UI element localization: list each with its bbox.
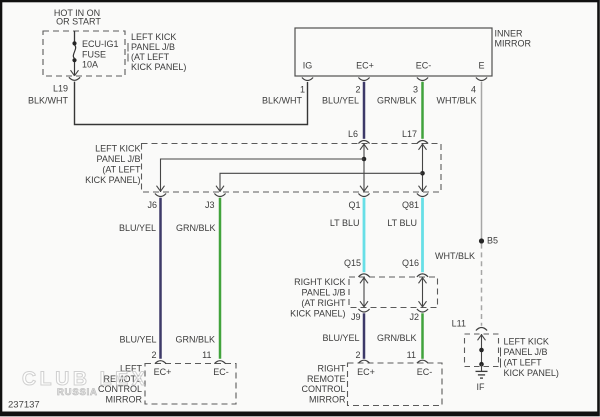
svg-text:2: 2	[355, 85, 360, 95]
svg-text:11: 11	[407, 350, 416, 360]
connector cup pin 4	[476, 78, 487, 81]
connector L19 cup	[69, 77, 80, 80]
svg-text:BLK/WHT: BLK/WHT	[262, 96, 303, 106]
svg-text:11: 11	[202, 350, 211, 360]
svg-text:(AT LEFT: (AT LEFT	[504, 358, 543, 368]
connector Q1	[348, 194, 369, 211]
svg-text:(AT LEFT: (AT LEFT	[131, 52, 170, 62]
svg-text:L19: L19	[53, 84, 68, 94]
connector J2	[409, 309, 428, 322]
svg-text:BLK/WHT: BLK/WHT	[28, 96, 69, 106]
svg-text:Q81: Q81	[402, 200, 419, 210]
svg-text:KICK PANEL): KICK PANEL)	[290, 309, 345, 319]
wire BLK/WHT from fuse to inner mirror pin 1	[75, 82, 308, 125]
wire WHT/BLK pin 4 to B5	[481, 82, 483, 241]
label RIGHT REMOTE CONTROL MIRROR	[301, 364, 346, 405]
svg-text:OR START: OR START	[56, 16, 101, 26]
wire BLU/YEL pin 2 to L6	[363, 82, 366, 139]
svg-text:IG: IG	[303, 61, 313, 71]
label INNER MIRROR	[495, 29, 532, 49]
svg-text:CONTROL: CONTROL	[301, 384, 345, 394]
wire GRN/BLK pin 3 to L17	[421, 82, 424, 139]
svg-text:IF: IF	[477, 382, 486, 392]
component box right remote control mirror	[348, 363, 443, 406]
J/B internal wire L11 to IF	[478, 334, 486, 364]
svg-text:PANEL J/B: PANEL J/B	[131, 42, 175, 52]
component box inner mirror	[295, 28, 492, 76]
svg-text:BLU/YEL: BLU/YEL	[322, 333, 359, 343]
svg-text:LEFT KICK: LEFT KICK	[95, 144, 140, 154]
fuse ECU-IG1 10A symbol	[72, 41, 76, 75]
svg-text:Q16: Q16	[402, 258, 419, 268]
svg-text:4: 4	[471, 85, 476, 95]
svg-text:GRN/BLK: GRN/BLK	[377, 96, 417, 106]
svg-text:EC-: EC-	[417, 367, 433, 377]
svg-text:L6: L6	[348, 129, 358, 139]
connector cup right mirror EC-	[417, 360, 428, 363]
svg-text:2: 2	[151, 350, 156, 360]
J/B internal wire to J6	[157, 159, 365, 192]
svg-text:BLU/YEL: BLU/YEL	[119, 335, 156, 345]
svg-text:FUSE: FUSE	[82, 49, 106, 59]
svg-text:INNER: INNER	[495, 29, 524, 39]
svg-text:PANEL J/B: PANEL J/B	[96, 154, 140, 164]
label LEFT KICK PANEL J/B at fuse box	[131, 32, 186, 72]
svg-text:EC+: EC+	[154, 367, 172, 377]
svg-text:KICK PANEL): KICK PANEL)	[131, 62, 186, 72]
connector J6	[147, 194, 166, 211]
dashed wire B5 to L11	[481, 244, 483, 326]
wire into fuse	[74, 31, 76, 43]
svg-text:Q15: Q15	[344, 258, 361, 268]
svg-text:Q1: Q1	[348, 200, 360, 210]
label LEFT KICK PANEL J/B (AT LEFT KICK PANEL)	[85, 144, 141, 186]
svg-text:J2: J2	[409, 312, 419, 322]
svg-text:3: 3	[413, 85, 418, 95]
wire GRN/BLK J2 to right mirror	[421, 313, 424, 359]
J/B internal wire to J3	[216, 173, 423, 192]
svg-text:KICK PANEL): KICK PANEL)	[85, 175, 140, 185]
svg-text:10A: 10A	[82, 60, 98, 70]
svg-text:MIRROR: MIRROR	[309, 395, 346, 405]
svg-text:WHT/BLK: WHT/BLK	[436, 96, 476, 106]
svg-text:RIGHT: RIGHT	[318, 364, 347, 374]
svg-text:(AT RIGHT: (AT RIGHT	[301, 298, 346, 308]
connector Q16 cup	[417, 274, 428, 277]
label RIGHT KICK PANEL J/B (AT RIGHT KICK PANEL)	[290, 277, 346, 319]
component box left remote control mirror	[145, 364, 236, 405]
svg-text:(AT LEFT: (AT LEFT	[102, 165, 141, 175]
svg-text:EC+: EC+	[356, 61, 374, 71]
svg-text:BLU/YEL: BLU/YEL	[322, 96, 359, 106]
wire LT BLU Q81 to Q16	[421, 198, 424, 272]
svg-text:GRN/BLK: GRN/BLK	[176, 223, 216, 233]
connector L6	[348, 129, 370, 144]
svg-text:RIGHT KICK: RIGHT KICK	[294, 277, 345, 287]
svg-text:RUSSIA: RUSSIA	[57, 387, 98, 398]
svg-text:KICK PANEL): KICK PANEL)	[504, 368, 559, 378]
J/B internal wire Q16 to J2	[419, 277, 427, 308]
connector J9	[351, 309, 370, 322]
junction block dashed box right kick panel J/B	[349, 277, 438, 308]
svg-text:237137: 237137	[8, 399, 40, 410]
junction block dashed box left kick panel J/B lower	[465, 334, 499, 367]
connector cup left mirror EC-	[214, 361, 225, 364]
svg-text:EC-: EC-	[213, 367, 229, 377]
wire LT BLU Q1 to Q15	[363, 198, 366, 272]
svg-text:L11: L11	[452, 319, 466, 329]
svg-text:GRN/BLK: GRN/BLK	[175, 335, 215, 345]
svg-text:LT BLU: LT BLU	[330, 218, 360, 228]
svg-text:LT BLU: LT BLU	[387, 218, 417, 228]
junction block dashed box (fuse holder)	[43, 31, 125, 76]
arrow at fuse box exit	[71, 70, 79, 76]
svg-text:BLU/YEL: BLU/YEL	[119, 223, 156, 233]
svg-text:MIRROR: MIRROR	[106, 395, 143, 405]
svg-text:WHT/BLK: WHT/BLK	[435, 251, 475, 261]
connector L17	[402, 129, 428, 144]
connector cup right mirror EC+	[358, 360, 369, 363]
watermark CLUB LEX RUSSIA	[22, 368, 148, 398]
junction node on L6 line	[362, 157, 367, 162]
svg-text:PANEL J/B: PANEL J/B	[504, 347, 548, 357]
junction node in lower J/B	[479, 348, 484, 353]
ground IF	[476, 364, 488, 378]
connector cup pin 1	[302, 78, 313, 81]
label LEFT KICK PANEL J/B (AT LEFT KICK PANEL) lower	[504, 337, 559, 379]
J/B internal wire L6 to Q1	[360, 144, 368, 193]
brace for fuse box label	[127, 43, 129, 62]
connector J3	[205, 194, 226, 211]
J/B internal wire L17 to Q81	[419, 144, 427, 193]
fuse label ECU-IG1 FUSE 10A	[82, 39, 119, 70]
connector cup left mirror EC+	[155, 361, 166, 364]
svg-text:L17: L17	[402, 129, 417, 139]
svg-text:B5: B5	[487, 236, 498, 246]
connector Q81	[402, 194, 428, 211]
connector Q15 cup	[358, 274, 369, 277]
svg-text:EC-: EC-	[416, 61, 432, 71]
label LEFT REMOTE CONTROL MIRROR	[98, 364, 143, 405]
connector cup pin 3	[417, 78, 428, 81]
svg-text:J9: J9	[351, 312, 361, 322]
connector cup pin 2	[358, 78, 369, 81]
junction node at J/B bottom edge	[479, 362, 484, 367]
wire BLU/YEL J9 to right mirror	[363, 313, 366, 359]
J/B internal wire Q15 to J9	[360, 277, 368, 308]
power source label HOT IN ON OR START	[54, 8, 102, 27]
svg-text:E: E	[478, 61, 484, 71]
wire GRN/BLK J3 to left mirror	[219, 198, 222, 359]
svg-text:J6: J6	[147, 200, 157, 210]
svg-text:ECU-IG1: ECU-IG1	[82, 39, 119, 49]
svg-text:REMOTE: REMOTE	[307, 374, 346, 384]
junction block dashed box left kick panel J/B	[142, 144, 442, 193]
svg-text:LEFT KICK: LEFT KICK	[131, 32, 176, 42]
svg-text:J3: J3	[205, 200, 215, 210]
node B5	[479, 236, 498, 246]
svg-text:GRN/BLK: GRN/BLK	[377, 333, 417, 343]
brace for lower J/B label	[500, 348, 502, 368]
junction node on L17 line	[420, 171, 425, 176]
svg-text:1: 1	[300, 85, 305, 95]
connector L11	[452, 319, 487, 331]
wire BLU/YEL J6 to left mirror	[159, 198, 162, 359]
svg-text:LEFT KICK: LEFT KICK	[504, 337, 549, 347]
svg-text:MIRROR: MIRROR	[495, 39, 532, 49]
svg-text:EC+: EC+	[357, 367, 375, 377]
svg-text:2: 2	[355, 350, 360, 360]
svg-text:PANEL J/B: PANEL J/B	[301, 288, 345, 298]
